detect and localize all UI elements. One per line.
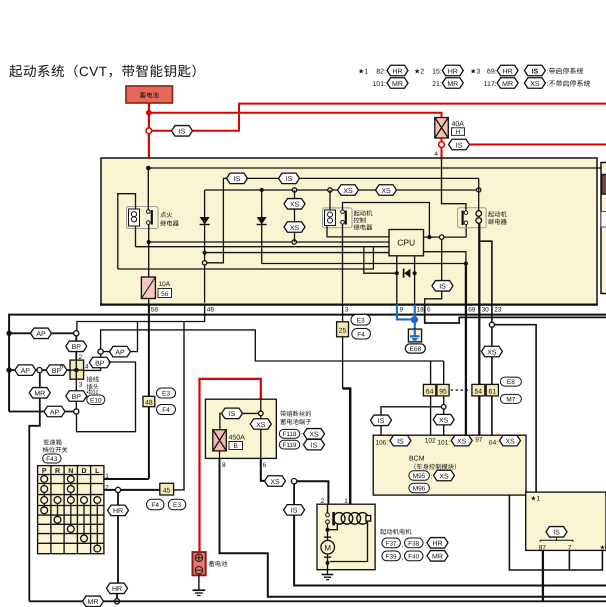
svg-text:F43: F43 xyxy=(46,456,58,463)
svg-text:87: 87 xyxy=(539,544,547,551)
pin labels bottom of IPDM xyxy=(151,307,502,314)
wire W8 xyxy=(262,263,466,265)
hexagon AP 1 xyxy=(31,328,52,339)
connector tag M96 xyxy=(409,483,430,493)
wire battery positive red riser xyxy=(200,379,261,552)
legend hexagon MR 117 xyxy=(497,78,518,89)
splice 25 box xyxy=(337,322,349,337)
relay R1 ignition 点火继电器 xyxy=(127,207,159,229)
connector tag M95 XS xyxy=(409,470,455,481)
svg-text:XS: XS xyxy=(343,188,353,195)
wire 95-col to BCM101 xyxy=(443,409,445,414)
wire R1 contact out to fuse 10A xyxy=(148,225,150,278)
wire pin6 output right xyxy=(425,305,606,324)
svg-text:,: , xyxy=(402,542,404,549)
node circle HR bus xyxy=(114,599,119,604)
junction dot AP2 xyxy=(6,367,11,372)
wire 45 out up xyxy=(174,322,184,490)
wire starter pin1 feed xyxy=(343,389,351,512)
wire BCM feed horizontal xyxy=(101,330,444,361)
node open circle battery IS branch xyxy=(146,128,152,134)
hexagon IS 40A branch xyxy=(449,139,470,150)
wire HR column xyxy=(117,493,119,584)
connector tag E3 pin3 xyxy=(351,315,371,326)
ground bus bottom xyxy=(29,600,606,602)
svg-text:4: 4 xyxy=(85,363,89,370)
svg-text:M96: M96 xyxy=(413,486,426,493)
wire R3 coil top xyxy=(478,178,480,210)
wire to starter terminal 2 xyxy=(297,481,329,504)
svg-text:F4: F4 xyxy=(151,502,159,509)
svg-text:40A: 40A xyxy=(452,121,465,128)
connector tag M7 xyxy=(500,394,521,403)
svg-text:CPU: CPU xyxy=(397,238,415,248)
hexagon XS BCM101 feed xyxy=(433,414,454,425)
IPDM fuse-relay box xyxy=(101,158,597,305)
wire inside 450A box top xyxy=(260,399,262,411)
svg-text:★1: ★1 xyxy=(531,496,541,503)
wire pin3 column xyxy=(342,305,344,389)
wire R2 coil bottom to CPU xyxy=(327,226,389,237)
connector E68 (blue splice) xyxy=(397,305,422,342)
svg-text:18: 18 xyxy=(417,307,425,314)
svg-text::: : xyxy=(431,473,433,480)
wire W3 XS variant xyxy=(205,189,479,191)
connector pair box 61 xyxy=(486,384,498,396)
node circle W3 relay2-coil xyxy=(328,188,332,192)
BCM pin 101 XS xyxy=(437,435,472,446)
label B box xyxy=(229,442,243,451)
hexagon IS 450A xyxy=(222,408,243,419)
wire solenoid return xyxy=(330,521,368,561)
wire 450A to pin 8 xyxy=(219,451,221,459)
svg-text:HR: HR xyxy=(112,586,122,593)
wire IS to pin 6 jog xyxy=(425,291,442,304)
svg-text:HR: HR xyxy=(392,68,402,75)
legend row 1 xyxy=(358,68,590,89)
battery BAT2 (bottom) xyxy=(193,552,206,575)
battery terminal box 450A (带熔断丝的蓄电池端子) xyxy=(205,399,276,458)
wire star2 pin xyxy=(569,550,602,570)
svg-text:MR: MR xyxy=(34,391,45,398)
svg-text:H: H xyxy=(456,129,461,136)
node circle 450A split xyxy=(259,411,264,416)
svg-text:102: 102 xyxy=(425,438,436,445)
wire red IS to right edge lower xyxy=(470,144,606,146)
hexagon XS W3 a xyxy=(338,185,359,196)
svg-text:E68: E68 xyxy=(410,346,422,353)
svg-text::: : xyxy=(301,442,303,449)
svg-text:IS: IS xyxy=(439,284,446,291)
connector tag F43 xyxy=(43,454,62,463)
legend hexagon HR 69 xyxy=(497,65,518,76)
node circle AP1-BP1 xyxy=(74,331,79,336)
hexagon XS W3 b xyxy=(376,185,397,196)
wire R1 coil top route xyxy=(118,194,136,269)
svg-text:95: 95 xyxy=(439,388,447,395)
starter solenoid coil xyxy=(332,512,370,525)
hexagon XS 450A xyxy=(250,419,271,430)
hexagon MR left xyxy=(29,388,50,399)
node circle HR tap xyxy=(115,487,120,492)
wire red below fuse xyxy=(441,138,443,159)
svg-text:101:: 101: xyxy=(437,439,450,446)
svg-text:64:: 64: xyxy=(489,439,498,446)
junction dot W7 W8 xyxy=(464,261,468,265)
wire F43 pin1 xyxy=(104,478,149,480)
joint connector E01 xyxy=(70,360,84,379)
BCM pin 64 XS xyxy=(489,435,521,446)
wire W7 CPU out2 to pin 69 xyxy=(424,252,466,264)
wire R3 coil bottom pin30 thick xyxy=(478,223,480,305)
starter switch contact xyxy=(326,504,338,532)
wire diode-row branch xyxy=(364,247,397,274)
label H box xyxy=(452,128,465,136)
svg-text:F40: F40 xyxy=(408,553,419,560)
svg-text:E3: E3 xyxy=(162,391,170,398)
wire MR column lower to bus xyxy=(29,412,40,602)
svg-text:30: 30 xyxy=(482,307,490,314)
relay fragment in second box xyxy=(601,212,606,228)
legend hexagon IS xyxy=(524,65,545,76)
svg-text:BP: BP xyxy=(72,394,82,401)
BCM body control module box xyxy=(373,435,526,495)
svg-text:继电器: 继电器 xyxy=(488,218,508,226)
wire pin23 down XS xyxy=(491,327,493,346)
svg-text:45: 45 xyxy=(163,487,171,494)
wire XS branch 450A xyxy=(260,416,262,459)
wire IS branch down xyxy=(293,484,295,505)
wire W6 up to R3 contact xyxy=(465,224,467,237)
svg-text:起动系统（CVT，带智能钥匙）: 起动系统（CVT，带智能钥匙） xyxy=(9,64,206,79)
legend hexagon XS xyxy=(524,78,545,89)
node circle pin23 split xyxy=(489,322,494,327)
hexagon IS route xyxy=(284,505,305,516)
svg-text:L: L xyxy=(95,468,100,475)
wire R2 coil top xyxy=(329,190,331,210)
wire red IS branch upper xyxy=(152,130,172,132)
svg-text::不带启停系统: :不带启停系统 xyxy=(547,80,591,88)
svg-text:F119: F119 xyxy=(283,442,297,449)
wire BP3 column xyxy=(75,379,77,409)
svg-text:1: 1 xyxy=(105,473,109,480)
hexagon BP row2 xyxy=(46,365,67,376)
svg-text:F38: F38 xyxy=(408,540,419,547)
svg-text:101:: 101: xyxy=(372,81,386,88)
svg-text::带启停系统: :带启停系统 xyxy=(547,68,584,76)
wire pin30 column xyxy=(478,305,480,385)
connector tag E3 lower xyxy=(168,499,186,510)
fuse 10A xyxy=(141,277,155,299)
wire MR column xyxy=(39,373,41,412)
svg-text:HR: HR xyxy=(448,68,458,75)
svg-text:E3: E3 xyxy=(173,502,181,509)
svg-text:64: 64 xyxy=(426,388,434,395)
wire pin58 column xyxy=(148,305,150,480)
fusible link 40A xyxy=(435,118,449,139)
svg-text:XS: XS xyxy=(439,417,449,424)
svg-text:BCM: BCM xyxy=(409,456,425,463)
connector pair box 64 xyxy=(423,384,435,396)
node circle W3 XS-chain xyxy=(292,188,296,192)
connector tag F4 lower xyxy=(147,499,165,510)
svg-text:蓄电池端子: 蓄电池端子 xyxy=(280,418,311,426)
wire battery feed down (red) xyxy=(148,103,150,159)
connector tag F118 XS xyxy=(279,429,324,440)
connector tag E68 xyxy=(405,344,425,353)
wire AP2 row to E01 pin6 xyxy=(9,369,70,371)
svg-text:XS: XS xyxy=(530,81,540,88)
hexagon HR upper xyxy=(108,505,129,516)
wire W9 xyxy=(118,247,374,269)
svg-text:R: R xyxy=(55,468,60,475)
wire pin23 tap xyxy=(479,241,492,304)
diode D2 xyxy=(257,190,267,264)
svg-text:IS: IS xyxy=(234,176,241,183)
svg-text:54: 54 xyxy=(475,388,483,395)
svg-text:106:: 106: xyxy=(376,439,389,446)
wire pin30 below 54 box xyxy=(478,396,480,435)
svg-text:起动机电机: 起动机电机 xyxy=(380,528,412,536)
svg-text:接线: 接线 xyxy=(87,376,100,384)
svg-text:23: 23 xyxy=(494,307,502,314)
svg-text:15:: 15: xyxy=(432,69,442,76)
junction dot D1 Wdiode xyxy=(203,251,207,255)
wire R1 contact feed xyxy=(147,168,149,210)
hexagon IS pin6 xyxy=(432,281,453,292)
svg-text:XS: XS xyxy=(290,202,300,209)
legend hexagon HR 15 xyxy=(442,65,463,76)
wire pin69 to BCM97 xyxy=(465,305,467,436)
svg-text:档位开关: 档位开关 xyxy=(43,446,69,454)
wire pin23 branch to relay box xyxy=(494,325,536,492)
svg-text:82:: 82: xyxy=(376,69,386,76)
relay R2 starter control 起动机控制继电器 xyxy=(323,208,353,228)
svg-text:点火: 点火 xyxy=(160,211,173,219)
svg-text:★2: ★2 xyxy=(414,68,424,76)
svg-text:BP: BP xyxy=(95,360,105,367)
legend hexagon HR 82 xyxy=(387,65,408,76)
wire F43 pin2 row xyxy=(104,489,160,491)
wire 95-column xyxy=(443,361,445,405)
CPU U1 xyxy=(389,230,424,256)
svg-text:48: 48 xyxy=(207,307,215,314)
wire HR to bus xyxy=(116,594,118,600)
svg-text:★2: ★2 xyxy=(600,544,606,551)
connector tag E8 xyxy=(500,377,521,386)
relay R3 starter 起动机继电器 xyxy=(458,208,487,228)
svg-text:450A: 450A xyxy=(229,435,246,442)
connector tags F39 F40 MR xyxy=(382,551,448,562)
hexagon HR lower xyxy=(107,583,128,594)
svg-text:BP: BP xyxy=(72,344,82,351)
svg-text:61: 61 xyxy=(489,388,497,395)
svg-text:F4: F4 xyxy=(357,331,365,338)
wire AP4 row xyxy=(9,411,76,413)
hexagon IS BCM106 feed xyxy=(371,415,392,426)
hexagon XS chain b xyxy=(284,222,305,233)
hexagon IS star1 xyxy=(546,527,567,538)
svg-text:IS: IS xyxy=(179,129,186,136)
svg-text:6: 6 xyxy=(60,363,64,370)
svg-text:56: 56 xyxy=(161,291,169,298)
wire Wdiode to CPU xyxy=(205,252,389,254)
svg-text:M7: M7 xyxy=(506,396,515,403)
hexagon IS battery branch xyxy=(172,126,193,137)
svg-text:MR: MR xyxy=(88,599,99,606)
splice 48 box xyxy=(143,396,155,406)
svg-text:F39: F39 xyxy=(386,553,397,560)
hexagon XS chain a xyxy=(284,199,305,210)
fusible link 450A xyxy=(213,430,227,451)
svg-text:3: 3 xyxy=(345,307,349,314)
svg-text:AP: AP xyxy=(21,368,31,375)
svg-text:3: 3 xyxy=(79,382,83,389)
starter motor M xyxy=(321,530,335,570)
svg-text:48: 48 xyxy=(145,400,153,407)
wire XS to 61 box xyxy=(491,357,493,385)
svg-text:HR: HR xyxy=(432,541,442,548)
svg-text:58: 58 xyxy=(151,307,159,314)
svg-text:起动机: 起动机 xyxy=(354,210,374,218)
svg-text:8: 8 xyxy=(222,462,226,469)
transmission range switch F43 grid xyxy=(38,466,104,554)
svg-text:IS: IS xyxy=(553,530,560,537)
svg-text:P: P xyxy=(42,468,47,475)
wire W4a to CPU xyxy=(149,241,389,243)
battery BAT1 (top) xyxy=(126,86,173,103)
dashed link 95-54 xyxy=(451,389,471,391)
svg-text:F37: F37 xyxy=(386,540,397,547)
svg-text:AP: AP xyxy=(36,331,46,338)
F43 contact circles column P xyxy=(41,476,48,514)
svg-text:B: B xyxy=(234,443,238,450)
legend hexagon MR 101 xyxy=(387,78,408,89)
node circle W4a XS-chain bottom xyxy=(292,240,296,244)
svg-text:IS: IS xyxy=(456,142,463,149)
svg-text:带熔断丝的: 带熔断丝的 xyxy=(280,410,311,418)
svg-text:MR: MR xyxy=(392,81,403,88)
svg-text:10A: 10A xyxy=(159,281,171,288)
svg-text:4: 4 xyxy=(434,151,438,158)
svg-text:69:: 69: xyxy=(487,69,497,76)
junction dot R1 out xyxy=(147,240,151,244)
svg-text:控制: 控制 xyxy=(354,217,367,225)
node circle W6 IS tap xyxy=(440,235,444,239)
svg-text::: : xyxy=(424,541,426,548)
connector tag F119 IS xyxy=(279,439,324,450)
svg-text:F4: F4 xyxy=(162,407,170,414)
diode D3 CPU bottom xyxy=(395,256,417,305)
svg-text:25: 25 xyxy=(339,327,347,334)
second fuse box (right edge, partial) xyxy=(601,163,606,294)
svg-text:MR: MR xyxy=(447,81,458,88)
svg-text:97: 97 xyxy=(475,437,483,444)
wire W2 IS variant xyxy=(205,178,479,262)
svg-text:XS: XS xyxy=(487,349,497,356)
splice 45 box xyxy=(160,483,174,495)
BCM pin 106 IS xyxy=(376,435,411,446)
wire pin8 route to bus xyxy=(220,458,606,596)
wire IS branch to pin 6 xyxy=(441,239,443,280)
hexagon AP 4 xyxy=(44,406,65,417)
wire IS branch 450A xyxy=(220,413,259,429)
F43 contact circles column L xyxy=(94,497,101,552)
F43 column headers P R N D L xyxy=(42,468,100,475)
legend hexagon MR 21 xyxy=(442,78,463,89)
node circle D1 W2 join xyxy=(202,261,206,265)
svg-text:E10: E10 xyxy=(90,397,102,404)
wire battery feed inside box xyxy=(442,159,466,212)
svg-text:HR: HR xyxy=(503,68,513,75)
connector tag F4 upper xyxy=(157,405,176,415)
node circle AP2-MR xyxy=(37,368,42,373)
ground starter xyxy=(322,570,334,580)
node circle 95 out xyxy=(441,405,446,410)
svg-text:★3: ★3 xyxy=(470,68,480,76)
starter motor box 起动机电机 xyxy=(317,504,375,570)
F43 contact circles column N xyxy=(67,476,74,533)
svg-text:6: 6 xyxy=(263,462,267,469)
starter relay unit box star1 xyxy=(526,492,606,550)
svg-text:D: D xyxy=(81,468,86,475)
svg-text:起动机: 起动机 xyxy=(488,211,508,219)
svg-text:69: 69 xyxy=(468,307,476,314)
svg-text:IS: IS xyxy=(311,442,318,449)
svg-text:M: M xyxy=(324,544,331,553)
svg-text:XS: XS xyxy=(381,188,391,195)
hexagon BP 3 xyxy=(66,391,87,402)
svg-text:蓄电池: 蓄电池 xyxy=(139,92,159,100)
svg-text:9: 9 xyxy=(400,307,404,314)
wire AP1 row xyxy=(9,332,76,334)
svg-text:E8: E8 xyxy=(507,379,515,386)
wire red IS to right edge xyxy=(193,104,606,131)
svg-text:XS: XS xyxy=(439,473,449,480)
connector tag E3 upper xyxy=(157,388,176,398)
wire XS chain vertical xyxy=(294,190,296,242)
svg-text:1: 1 xyxy=(344,498,348,505)
svg-text:（车身控制模块）: （车身控制模块） xyxy=(410,463,460,471)
hexagon XS pin23 xyxy=(481,346,502,357)
wire R2 contact top W5 xyxy=(343,203,430,238)
hexagon AP 2 xyxy=(15,365,36,376)
wire W4b to CPU xyxy=(136,246,390,248)
hexagon AP 3 xyxy=(110,346,131,357)
svg-text:,: , xyxy=(402,555,404,562)
svg-text:F118: F118 xyxy=(283,431,297,438)
F43 contact circles column R xyxy=(54,497,61,523)
wire fuse 10A to pin 58 xyxy=(148,299,150,305)
hexagon BP 1 xyxy=(66,341,87,352)
wire red to 40A fuse xyxy=(149,113,442,118)
diode D1 xyxy=(200,190,210,303)
connector pair box 54 xyxy=(472,384,485,396)
wire pin48 jog xyxy=(77,305,205,331)
wire XS to BCM101 xyxy=(443,425,445,435)
svg-text:XS: XS xyxy=(309,432,319,439)
connector tag E10 xyxy=(87,395,105,405)
wire IS to BCM106 xyxy=(380,426,382,435)
node battery entry dot xyxy=(146,166,151,171)
wire BP2 column to E01 pin4 xyxy=(84,354,101,370)
connector tag F4 pin3 xyxy=(352,329,371,340)
wire route via x135 xyxy=(77,362,136,432)
connector pair box 95 xyxy=(437,384,449,396)
node circle AP4-BP3 xyxy=(74,409,79,414)
junction dot W5 W6 xyxy=(427,235,431,239)
fusible link in second box xyxy=(602,175,606,195)
